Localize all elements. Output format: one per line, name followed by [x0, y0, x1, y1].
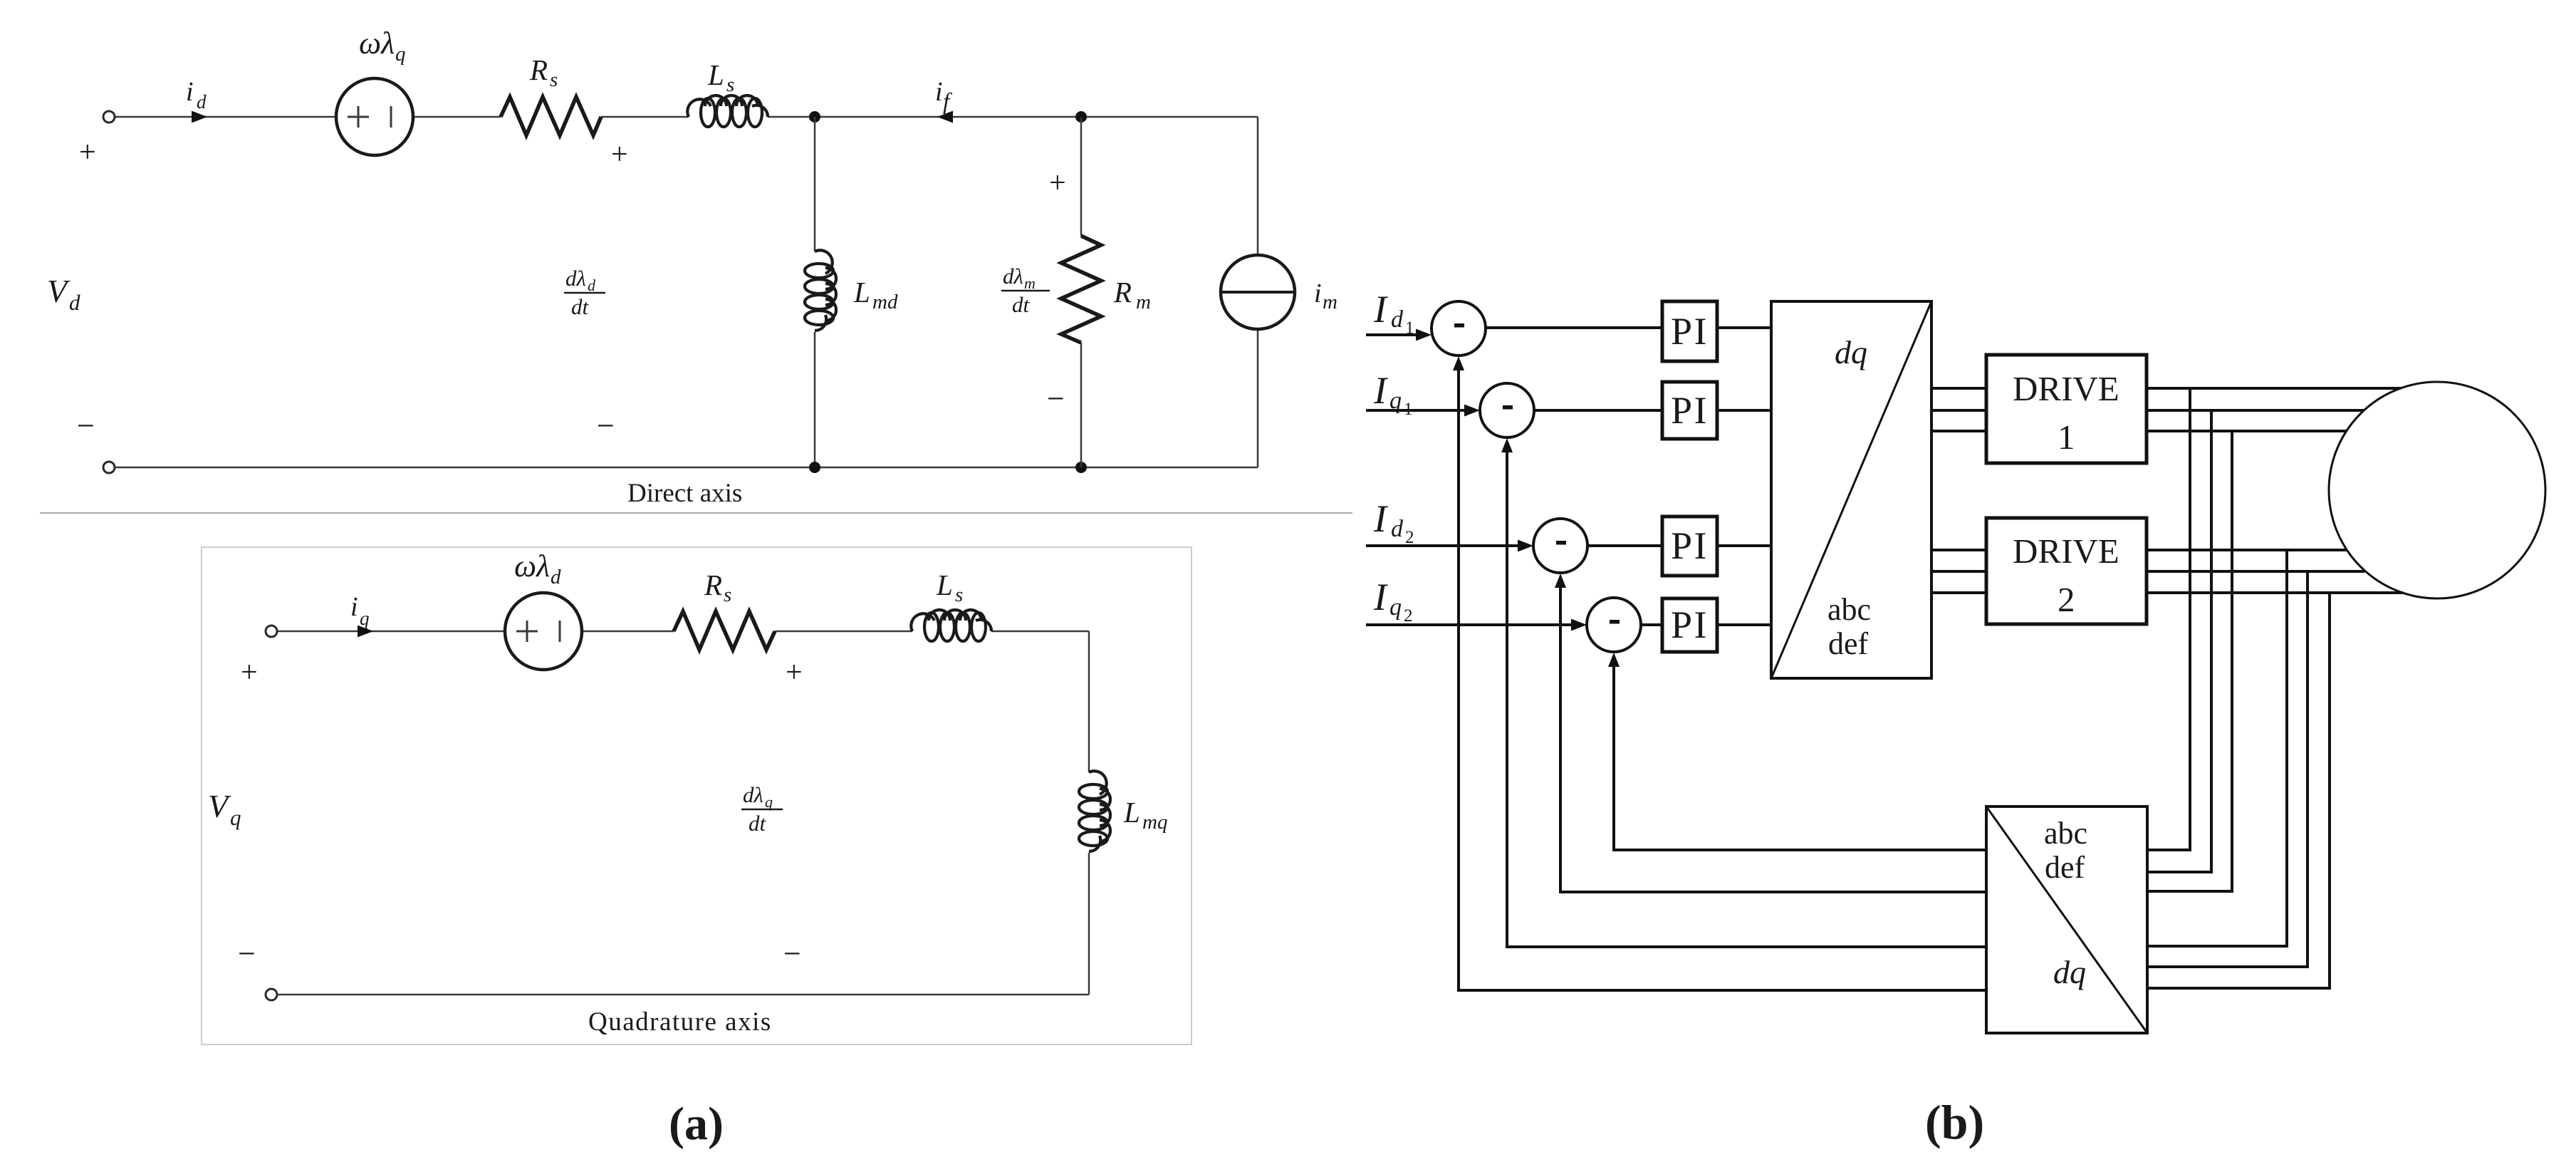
arrow: into sum1	[1416, 329, 1432, 341]
block DRIVE 1	[1986, 355, 2147, 463]
wire: DRIVE2 phase outputs to motor	[2147, 550, 2403, 593]
wire: Lmq branch vertical	[1088, 631, 1090, 995]
summing junction S4	[1587, 598, 1641, 652]
wire: feedback lines from block to verticals	[1459, 850, 1986, 990]
terminal: Vd plus terminal	[103, 111, 115, 123]
wire: Rm branch vertical	[1080, 117, 1083, 467]
svg-text:i: i	[350, 592, 358, 622]
wire: sum4 to PI4	[1641, 623, 1662, 626]
svg-text:+: +	[611, 138, 628, 171]
block: abcdef to dq feedback transform	[1986, 806, 2147, 1033]
frame: quadrature inset border	[202, 547, 1191, 1044]
svg-text:+: +	[786, 656, 803, 689]
svg-text:s: s	[550, 68, 558, 91]
wire: PI4 to dq block	[1717, 623, 1771, 626]
wire: Lmd branch vertical	[814, 117, 816, 467]
arrow: into sum2	[1464, 405, 1480, 417]
arrow: if current arrow (pointing left)	[937, 111, 953, 123]
svg-text:DRIVE: DRIVE	[2013, 369, 2119, 408]
arrow: id current arrow	[192, 111, 207, 123]
label: fraction dLambda_q/dt	[741, 782, 783, 836]
motor circle	[2329, 382, 2545, 598]
svg-text:d: d	[1391, 516, 1404, 542]
svg-text:(a): (a)	[669, 1098, 724, 1150]
svg-text:md: md	[872, 291, 898, 313]
svg-text:PI: PI	[1671, 603, 1709, 646]
svg-text:q: q	[765, 793, 773, 811]
wire: sum2 to PI2	[1534, 409, 1662, 412]
svg-text:m: m	[1323, 291, 1337, 313]
svg-text:d: d	[551, 566, 561, 588]
svg-text:q: q	[1389, 594, 1402, 621]
resistor Rm (vertical)	[1061, 236, 1101, 343]
node: junction node 2 top	[1075, 111, 1087, 123]
svg-text:i: i	[1314, 279, 1322, 308]
label: fraction dLambda_d/dt	[564, 266, 605, 319]
svg-text:−: −	[238, 936, 256, 971]
svg-text:i: i	[186, 77, 194, 107]
svg-text:DRIVE: DRIVE	[2013, 531, 2119, 571]
wire: feedback verticals up to summing junctions	[1459, 369, 1614, 992]
block: dq to abcdef transform	[1771, 301, 1931, 678]
svg-text:L: L	[936, 569, 953, 601]
svg-text:def: def	[2045, 850, 2085, 885]
inductor Lmd (vertical)	[805, 250, 836, 331]
wire: direct axis bottom rail	[115, 467, 1258, 469]
wire: PI3 to dq block	[1717, 544, 1771, 547]
svg-text:dλ: dλ	[1003, 264, 1023, 289]
summing junction S2	[1480, 383, 1534, 437]
arrow: feedback into sum1	[1453, 356, 1464, 370]
svg-text:m: m	[1024, 274, 1036, 292]
svg-text:I: I	[1373, 576, 1389, 618]
wire: Iq2 input	[1366, 623, 1573, 626]
svg-text:dt: dt	[1012, 292, 1031, 317]
svg-text:d: d	[197, 91, 207, 113]
svg-text:R: R	[1113, 276, 1132, 308]
svg-text:2: 2	[1405, 528, 1414, 547]
svg-text:dλ: dλ	[743, 782, 763, 807]
svg-text:q: q	[395, 43, 406, 66]
wire: Iq1 input	[1366, 409, 1466, 412]
svg-text:−: −	[783, 936, 801, 971]
node: junction node 1 top	[809, 111, 820, 123]
svg-text:d: d	[69, 290, 80, 315]
block PI1	[1662, 301, 1717, 361]
wire: PI2 to dq block	[1717, 409, 1771, 412]
svg-text:I: I	[1373, 288, 1389, 331]
svg-text:Direct axis: Direct axis	[627, 479, 742, 508]
arrow: feedback into sum4	[1608, 653, 1620, 667]
svg-text:mq: mq	[1142, 811, 1167, 834]
wire: Id1 input	[1366, 333, 1417, 336]
wire: quadrature top rail	[277, 631, 1089, 633]
svg-text:−: −	[1047, 381, 1065, 416]
svg-text:def: def	[1828, 626, 1869, 661]
wire: Id2 input	[1366, 544, 1519, 547]
terminal: Vd minus terminal	[103, 462, 115, 473]
node: bottom node 2	[1075, 462, 1087, 473]
resistor Rs (quadrature)	[674, 611, 775, 650]
wire: phase tap verticals (drive1)	[2190, 388, 2232, 891]
wire: PI1 to dq block	[1717, 326, 1771, 329]
svg-text:V: V	[208, 788, 231, 824]
terminal: Vq plus terminal	[266, 626, 277, 637]
svg-text:L: L	[707, 58, 724, 91]
svg-text:dq: dq	[2053, 954, 2086, 990]
block PI4	[1662, 598, 1717, 652]
arrow: feedback into sum3	[1555, 574, 1566, 588]
svg-text:2: 2	[2058, 580, 2075, 619]
wire: dq block to DRIVE1 (3 lines)	[1931, 388, 1986, 431]
svg-text:I: I	[1373, 497, 1389, 540]
wire: phase tap verticals (drive2)	[2287, 550, 2330, 988]
wire: direct axis top rail	[115, 116, 1258, 118]
svg-text:L: L	[853, 276, 870, 308]
node: bottom node 1	[809, 462, 820, 473]
svg-text:R: R	[704, 569, 722, 601]
separator line under Direct axis	[40, 512, 1352, 514]
inductor Ls (direct axis)	[687, 95, 768, 127]
svg-text:dt: dt	[571, 294, 590, 319]
svg-text:s: s	[726, 73, 734, 96]
inductor Ls (quadrature)	[911, 610, 991, 641]
svg-text:ωλ: ωλ	[514, 549, 550, 583]
svg-text:1: 1	[2058, 417, 2075, 457]
arrow: iq current arrow	[358, 626, 373, 638]
arrow: into sum3	[1518, 540, 1533, 552]
svg-text:−: −	[597, 408, 615, 443]
svg-text:d: d	[588, 276, 596, 294]
svg-text:q: q	[360, 608, 370, 629]
wire: im branch vertical	[1257, 117, 1259, 467]
svg-text:L: L	[1123, 796, 1140, 829]
svg-text:abc: abc	[2044, 816, 2087, 851]
block PI3	[1662, 517, 1717, 576]
wire: sum3 to PI3	[1587, 544, 1662, 547]
resistor Rs (direct axis)	[501, 97, 601, 135]
svg-text:I: I	[1373, 369, 1389, 412]
source: dependent source wLd	[505, 593, 582, 670]
svg-text:−: −	[77, 408, 95, 443]
svg-text:dλ: dλ	[565, 266, 586, 291]
svg-text:i: i	[935, 77, 943, 107]
current source im	[1221, 255, 1295, 329]
svg-text:PI: PI	[1671, 524, 1709, 567]
svg-text:PI: PI	[1671, 310, 1709, 353]
svg-text:abc: abc	[1827, 592, 1871, 627]
svg-text:2: 2	[1404, 606, 1413, 626]
arrow: feedback into sum2	[1501, 438, 1513, 452]
summing junction S3	[1533, 519, 1587, 573]
svg-text:R: R	[529, 53, 548, 86]
svg-text:+: +	[1049, 167, 1066, 199]
svg-text:m: m	[1136, 291, 1151, 313]
svg-text:dq: dq	[1835, 334, 1867, 370]
svg-text:V: V	[47, 273, 71, 309]
svg-text:Quadrature axis: Quadrature axis	[588, 1007, 772, 1037]
svg-text:PI: PI	[1671, 389, 1709, 432]
summing junction S1	[1432, 301, 1486, 356]
svg-text:s: s	[955, 583, 963, 606]
svg-text:+: +	[241, 656, 258, 689]
wire: DRIVE1 phase outputs to motor	[2147, 388, 2401, 431]
svg-text:s: s	[724, 583, 731, 606]
svg-text:d: d	[1391, 306, 1404, 333]
label: fraction dLambda_m/dt	[1001, 264, 1050, 317]
arrow: into sum4	[1571, 619, 1587, 631]
svg-text:ωλ: ωλ	[359, 26, 395, 61]
wire: dq block to DRIVE2 (3 lines)	[1931, 550, 1986, 593]
svg-text:dt: dt	[749, 811, 767, 836]
terminal: Vq minus terminal	[266, 989, 277, 1000]
wire: taps into feedback block right side	[2147, 850, 2331, 988]
wire: quadrature bottom rail	[277, 994, 1089, 996]
block DRIVE 2	[1986, 518, 2147, 624]
svg-text:q: q	[230, 805, 241, 830]
svg-text:(b): (b)	[1925, 1095, 1984, 1149]
source: dependent source wLq	[336, 78, 413, 155]
svg-text:+: +	[79, 136, 96, 169]
block PI2	[1662, 382, 1717, 439]
inductor Lmq (vertical)	[1079, 771, 1110, 851]
wire: sum1 to PI1	[1486, 326, 1662, 329]
